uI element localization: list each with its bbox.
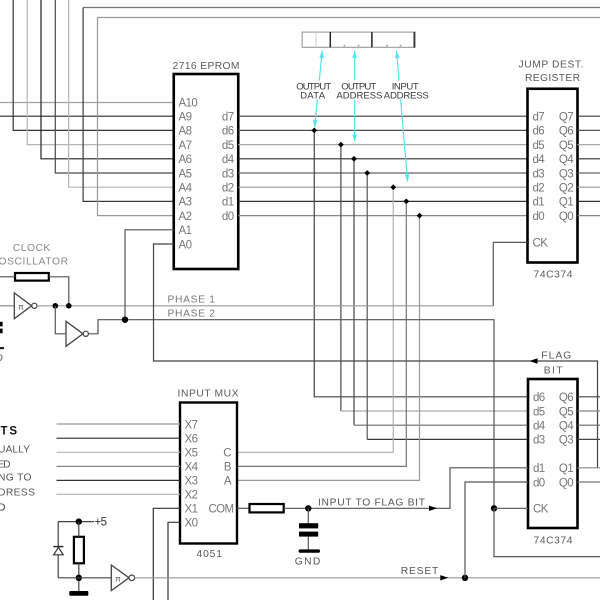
wire phase1	[37, 305, 493, 307]
svg-text:π: π	[18, 302, 24, 311]
svg-text:DRESS: DRESS	[0, 488, 35, 499]
svg-text:d6: d6	[222, 126, 234, 138]
svg-text:X5: X5	[185, 448, 198, 460]
wire Q0 flag out	[578, 481, 600, 483]
svg-text:d2: d2	[222, 183, 234, 195]
svg-text:COM: COM	[208, 504, 233, 516]
wire diode branch	[57, 522, 59, 578]
node phase1 resistor	[66, 303, 72, 309]
svg-text:Q1: Q1	[559, 463, 573, 475]
svg-text:A10: A10	[179, 97, 198, 109]
svg-text:INPUT MUX: INPUT MUX	[178, 388, 239, 399]
svg-text:GND: GND	[295, 556, 321, 567]
node capacitor tap	[305, 505, 311, 511]
svg-text:RESET: RESET	[401, 566, 439, 577]
arrow flag bit left	[530, 358, 538, 363]
wire por node	[58, 577, 111, 579]
wire d6 data	[238, 129, 527, 131]
svg-text:OSCILLATOR: OSCILLATOR	[0, 256, 68, 267]
resistor R2 flag input	[250, 504, 284, 512]
wire R3 top	[78, 522, 80, 537]
wire input to flag bit	[284, 468, 528, 509]
svg-text:A5: A5	[179, 168, 192, 180]
ground C1	[299, 549, 320, 552]
flag register U5 box	[528, 379, 578, 528]
wire phase2	[88, 320, 494, 509]
svg-text:A1: A1	[179, 225, 192, 237]
wire d5 data	[238, 144, 527, 146]
node junction d5	[338, 142, 344, 148]
arrow output address cyan	[352, 51, 357, 143]
svg-text:ADDRESS: ADDRESS	[336, 90, 382, 101]
node por bottom	[76, 575, 82, 581]
svg-text:JUMP DEST.: JUMP DEST.	[519, 59, 584, 70]
capacitor C1	[299, 508, 318, 549]
wire Q6 out	[578, 129, 600, 131]
svg-text:Q6: Q6	[559, 126, 573, 138]
arrow reset	[440, 575, 448, 580]
svg-text:π: π	[115, 574, 121, 583]
inverter U3 schmitt	[14, 293, 37, 319]
wire CK jump to phase1	[493, 242, 527, 306]
svg-text:d0: d0	[222, 211, 234, 223]
wire A9 bus line	[0, 115, 174, 117]
wire flag CK stub	[494, 507, 528, 509]
svg-text:Q7: Q7	[559, 112, 573, 124]
svg-text:A: A	[224, 476, 232, 488]
EPROM U1 2716 box	[174, 74, 239, 269]
fragment bold blocks	[0, 322, 4, 364]
svg-text:d5: d5	[222, 140, 234, 152]
svg-text:74C374: 74C374	[534, 269, 573, 280]
svg-text:Q4: Q4	[559, 421, 574, 433]
svg-text:TS: TS	[1, 425, 18, 437]
svg-text:C: C	[223, 448, 231, 460]
svg-text:A6: A6	[179, 154, 192, 166]
wire R1 left	[0, 276, 15, 278]
svg-text:A8: A8	[179, 126, 192, 138]
svg-text:Q4: Q4	[559, 154, 574, 166]
svg-text:+5: +5	[95, 517, 107, 529]
wire X5 in	[57, 451, 181, 453]
node phase1 feedback	[53, 303, 59, 309]
wire d1 data	[238, 200, 527, 202]
svg-text:d4: d4	[533, 154, 546, 166]
svg-text:d5: d5	[533, 406, 545, 418]
svg-text:d1: d1	[533, 463, 545, 475]
svg-text:DATA: DATA	[300, 90, 326, 101]
wire Q3 out	[578, 172, 600, 174]
inverter U4	[66, 321, 88, 346]
node plus5	[76, 518, 82, 524]
wire X2 in	[57, 493, 181, 495]
svg-text:X4: X4	[185, 462, 199, 474]
wire drop d4 to flag d4	[353, 159, 355, 425]
svg-text:d3: d3	[533, 435, 545, 447]
svg-text:D: D	[0, 502, 5, 513]
svg-text:2716 EPROM: 2716 EPROM	[173, 61, 240, 72]
svg-text:REGISTER: REGISTER	[525, 73, 580, 84]
svg-text:A2: A2	[179, 211, 192, 223]
svg-text:X6: X6	[185, 434, 198, 446]
svg-text:d1: d1	[222, 197, 234, 209]
svg-text:4051: 4051	[197, 549, 223, 560]
wire Q1 out	[578, 200, 600, 202]
wire d7 data	[238, 115, 527, 117]
wire Q5 flag out	[578, 410, 600, 412]
node flag CK phase2	[491, 505, 497, 511]
node A1 phase2 junction	[122, 317, 128, 323]
wire drop d3 to flag d3	[366, 173, 368, 439]
svg-text:d5: d5	[533, 140, 545, 152]
wire A1 to phase2	[125, 230, 174, 320]
wire A3 bus wrap from top	[83, 7, 600, 9]
diode D1	[53, 547, 63, 555]
svg-text:X7: X7	[185, 419, 198, 431]
svg-text:Q3: Q3	[559, 435, 573, 447]
node junction d1	[403, 199, 409, 205]
resistor R1 clock feedback	[15, 273, 49, 281]
label OUTPUT DATA	[295, 81, 332, 102]
svg-text:d3: d3	[222, 168, 234, 180]
wire inverter U3 input	[0, 305, 14, 307]
arrow input to flag bit	[429, 506, 437, 511]
inverter U7 reset schmitt	[111, 565, 134, 591]
svg-text:d7: d7	[533, 112, 545, 124]
wire reset	[135, 577, 600, 579]
svg-text:d1: d1	[533, 197, 545, 209]
node junction d2	[390, 184, 396, 190]
wire d0 data	[238, 215, 527, 217]
wire A6 bus L	[41, 0, 174, 159]
svg-text:PHASE 1: PHASE 1	[168, 295, 216, 306]
wire X3 in	[57, 479, 181, 481]
svg-text:CK: CK	[533, 504, 549, 516]
svg-text:d0: d0	[533, 477, 545, 489]
svg-text:d0: d0	[533, 211, 545, 223]
wire phase1 to inverter U4	[55, 306, 66, 334]
wire d4 data	[238, 158, 527, 160]
wire Q7 out	[578, 115, 600, 117]
svg-text:X3: X3	[185, 476, 198, 488]
svg-text:FLAG: FLAG	[541, 351, 571, 362]
svg-text:d6: d6	[533, 126, 545, 138]
svg-text:A7: A7	[179, 140, 192, 152]
wire A10 bus line	[0, 102, 174, 104]
jump dest register U2 box	[528, 89, 578, 263]
svg-text:d2: d2	[533, 183, 545, 195]
wire Q5 out	[578, 144, 600, 146]
svg-text:Q0: Q0	[559, 211, 573, 223]
svg-text:Q5: Q5	[559, 406, 573, 418]
svg-text:ADDRESS: ADDRESS	[384, 90, 429, 101]
wire reset to flag d0	[465, 482, 528, 578]
wire d2 data	[238, 186, 527, 188]
wire drop d0 to mux A	[237, 216, 420, 481]
svg-text:D: D	[0, 353, 3, 364]
wire phase2 tail	[494, 508, 600, 556]
wire A7 bus L	[27, 0, 174, 145]
svg-text:A3: A3	[179, 197, 192, 209]
svg-text:PHASE 2: PHASE 2	[168, 308, 216, 319]
wire Q4 out	[578, 158, 600, 160]
wire plus5 node	[58, 521, 94, 523]
arrow input address cyan	[395, 51, 409, 183]
node junction d3	[364, 170, 370, 176]
svg-text:CK: CK	[533, 238, 549, 250]
wire d3 data	[238, 172, 527, 174]
wire drop d6 to flag d6	[314, 130, 528, 396]
svg-text:X1: X1	[185, 504, 198, 516]
wire Q1 flag out	[578, 467, 600, 469]
wire X1 down	[153, 508, 180, 600]
svg-text:A9: A9	[179, 112, 192, 124]
wire A4 bus L	[69, 0, 174, 187]
wire X7 in	[57, 423, 181, 425]
svg-text:INPUT TO FLAG BIT: INPUT TO FLAG BIT	[318, 497, 426, 508]
wire X6 in	[57, 437, 181, 439]
svg-text:NG TO: NG TO	[0, 473, 32, 484]
arrow output data cyan	[313, 51, 324, 128]
wire COM to resistor	[237, 507, 250, 509]
resistor R3 por	[74, 537, 84, 564]
node reset to flag d0	[462, 575, 468, 581]
svg-text:Q6: Q6	[559, 392, 573, 404]
label INPUT ADDRESS	[383, 81, 430, 102]
wire R1 right to feedback	[49, 277, 69, 306]
svg-text:d6: d6	[533, 392, 545, 404]
ground por	[69, 591, 88, 596]
svg-text:X0: X0	[185, 518, 198, 530]
svg-text:CLOCK: CLOCK	[13, 243, 51, 254]
wire X4 in	[57, 465, 181, 467]
node junction d6	[311, 128, 317, 134]
wire A8 bus L	[13, 0, 174, 130]
wire Q3 flag out	[578, 438, 600, 440]
wire A0 to flag bit net	[154, 244, 598, 468]
svg-text:ED: ED	[0, 459, 11, 470]
wire Q2 out	[578, 186, 600, 188]
wire drop d5 to flag d5	[340, 145, 342, 411]
svg-text:Q1: Q1	[559, 197, 573, 209]
wire drop d1 to mux B	[237, 201, 406, 466]
microword cells box	[302, 32, 415, 48]
svg-text:X2: X2	[185, 490, 198, 502]
svg-text:Q3: Q3	[559, 168, 573, 180]
svg-text:A0: A0	[179, 239, 192, 251]
wire drop d2 to mux C	[237, 187, 393, 452]
svg-text:d4: d4	[533, 421, 546, 433]
svg-text:A4: A4	[179, 183, 193, 195]
svg-text:d4: d4	[222, 154, 235, 166]
svg-text:UALLY: UALLY	[0, 444, 30, 455]
label OUTPUT ADDRESS	[336, 81, 384, 102]
wire Q0 out	[578, 215, 600, 217]
node junction d0	[417, 213, 423, 219]
svg-text:BIT: BIT	[544, 366, 564, 377]
svg-text:Q5: Q5	[559, 140, 573, 152]
wire Q4 flag out	[578, 424, 600, 426]
svg-text:Q2: Q2	[559, 183, 573, 195]
svg-text:d3: d3	[533, 168, 545, 180]
node junction d4	[351, 156, 357, 162]
input mux U6 box	[180, 403, 237, 544]
wire A2 bus wrap from top	[98, 18, 600, 216]
svg-text:74C374: 74C374	[534, 535, 573, 546]
wire R3 bottom	[78, 563, 80, 591]
svg-text:B: B	[224, 462, 232, 474]
wire A5 bus L	[55, 0, 173, 173]
wire X0 down	[168, 522, 180, 600]
svg-text:d7: d7	[222, 112, 234, 124]
wire Q6 flag out	[578, 396, 600, 398]
svg-text:Q0: Q0	[559, 477, 573, 489]
